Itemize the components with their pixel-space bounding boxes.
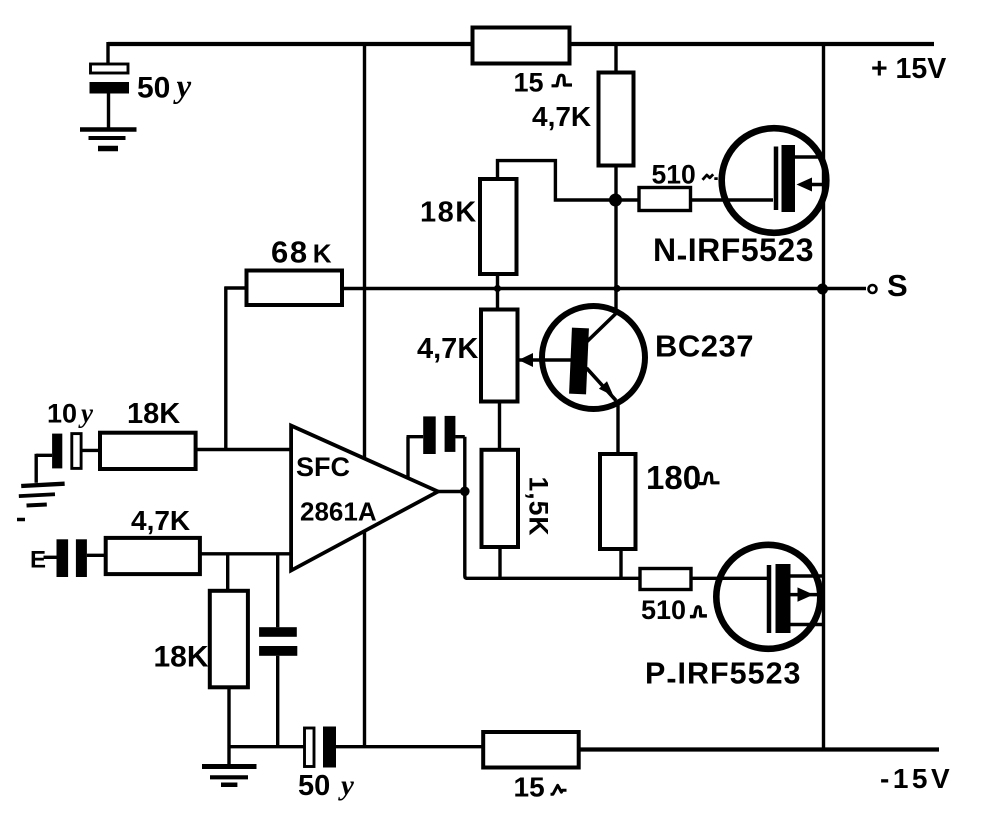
svg-text:18K: 18K <box>127 398 180 430</box>
svg-text:510: 510 <box>652 160 696 190</box>
svg-text:1,5K: 1,5K <box>524 477 554 537</box>
svg-text:15: 15 <box>514 772 545 803</box>
svg-text:510: 510 <box>641 595 686 625</box>
svg-text:S: S <box>887 268 908 303</box>
svg-text:50: 50 <box>298 770 330 802</box>
svg-text:-15V: -15V <box>880 763 953 794</box>
svg-text:15: 15 <box>514 68 544 98</box>
svg-text:18K: 18K <box>154 641 209 674</box>
svg-text:2861A: 2861A <box>300 497 377 527</box>
svg-text:68K: 68K <box>271 235 333 270</box>
svg-text:18K: 18K <box>420 197 478 229</box>
svg-text:y: y <box>338 770 354 802</box>
svg-text:E: E <box>30 547 46 574</box>
svg-text:+ 15V: + 15V <box>871 53 946 85</box>
svg-text:10: 10 <box>47 399 77 429</box>
svg-text:4,7K: 4,7K <box>417 333 478 365</box>
svg-text:180: 180 <box>646 459 701 496</box>
svg-text:50: 50 <box>137 72 170 105</box>
svg-text:N-IRF5523: N-IRF5523 <box>653 232 814 273</box>
svg-text:4,7K: 4,7K <box>131 505 190 536</box>
svg-text:4,7K: 4,7K <box>532 101 591 132</box>
svg-text:P-IRF5523: P-IRF5523 <box>645 657 802 696</box>
svg-text:BC237: BC237 <box>655 329 754 364</box>
svg-text:SFC: SFC <box>296 452 350 482</box>
svg-text:y: y <box>78 398 94 428</box>
